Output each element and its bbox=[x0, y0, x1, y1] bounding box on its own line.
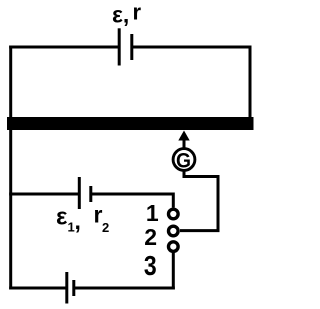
terminal 2 bbox=[169, 226, 179, 236]
wire: terminal 2 to riser bbox=[180, 229, 220, 232]
svg-text:1: 1 bbox=[146, 200, 159, 226]
battery B1 long plate bbox=[118, 28, 121, 65]
svg-text:,: , bbox=[75, 208, 81, 234]
wire: selector riser vertical bbox=[217, 175, 220, 231]
svg-text:ε: ε bbox=[56, 204, 67, 231]
battery B3 long plate bbox=[65, 272, 68, 304]
wire: middle branch right of B2 to terminal 1 bbox=[91, 194, 173, 208]
slide-wire bar bbox=[7, 117, 254, 130]
wire: bottom branch right of B3 bbox=[74, 287, 175, 290]
svg-text:r: r bbox=[133, 0, 142, 25]
wire: middle branch left of B2 bbox=[9, 193, 79, 196]
wire: terminal 3 down to bottom branch bbox=[172, 253, 175, 290]
wire: G bottom to elbow bbox=[184, 171, 218, 177]
wire: bottom branch left of B3 bbox=[9, 287, 66, 290]
svg-text:ε,: ε, bbox=[112, 2, 129, 28]
battery B1 short plate bbox=[130, 34, 133, 60]
wire: left side vertical bbox=[9, 46, 12, 290]
terminal 1 bbox=[169, 209, 179, 219]
sliding contact arrow bbox=[178, 131, 189, 149]
galvanometer G bbox=[173, 149, 195, 173]
label ε1, r2 for battery B2 bbox=[56, 202, 109, 236]
wire: right side vertical bbox=[249, 46, 252, 125]
svg-text:2: 2 bbox=[144, 224, 157, 250]
battery B3 short plate bbox=[72, 280, 75, 296]
terminal 3 bbox=[169, 242, 179, 252]
wire: top side right of B1 bbox=[132, 46, 251, 49]
svg-text:3: 3 bbox=[144, 251, 157, 281]
wire: top side left of B1 bbox=[9, 46, 119, 49]
svg-text:2: 2 bbox=[102, 220, 109, 235]
svg-text:G: G bbox=[176, 150, 191, 173]
battery B2 short plate bbox=[89, 186, 92, 202]
label "ε, r" for battery B1 bbox=[112, 0, 142, 28]
battery B2 long plate bbox=[78, 177, 81, 209]
